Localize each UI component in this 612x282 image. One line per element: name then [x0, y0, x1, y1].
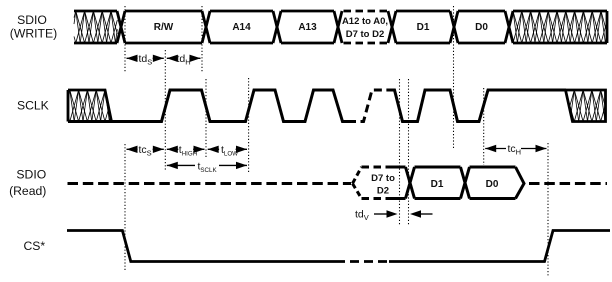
CS waveform right: [389, 231, 610, 262]
svg-text:A12 to A0,: A12 to A0,: [342, 16, 388, 27]
tsclk arrow: [167, 159, 247, 174]
svg-text:D7 to: D7 to: [371, 173, 395, 184]
tdh arrow: [167, 52, 201, 67]
tcs arrow: [127, 143, 164, 158]
dotted guide line x=125 lower: [124, 144, 126, 272]
thigh arrow: [167, 143, 205, 158]
cell A14 edges: [210, 11, 273, 43]
svg-text:D1: D1: [431, 179, 444, 190]
SDIO read: left dashed midline: [68, 182, 352, 185]
svg-text:A14: A14: [232, 22, 251, 33]
svg-text:SDIO: SDIO: [17, 13, 47, 27]
svg-text:CS*: CS*: [23, 239, 45, 253]
svg-text:A13: A13: [298, 22, 317, 33]
bus crossover at 277: [273, 11, 281, 43]
svg-text:D7 to D2: D7 to D2: [346, 29, 385, 40]
bus crossover at 121: [117, 11, 125, 43]
dotted guide line x=408.5: [408, 79, 410, 225]
cell D1 edges: [396, 11, 450, 43]
svg-text:D0: D0: [475, 22, 488, 33]
read crossover at 465: [461, 167, 470, 199]
dashed cell D7-D2 edges: [362, 167, 389, 199]
dotted guide line x=165.3: [164, 50, 166, 171]
bus crossover at 206: [202, 11, 210, 43]
dotted guide line x=206: [205, 79, 207, 172]
cell text A12 to A0, D7 to D2: [342, 16, 388, 40]
svg-text:(Read): (Read): [9, 184, 46, 198]
dotted guide line x=483.7: [483, 88, 485, 165]
dotted guide line x=453.5: [453, 6, 455, 148]
dotted guide line x=202: [201, 6, 203, 73]
tch arrow: [485, 142, 546, 157]
read bus closing: [516, 167, 525, 199]
dotted guide line x=248.6: [248, 78, 250, 172]
read bus opening: [353, 167, 362, 199]
SDIO write bus: right dont-care crosshatch: [513, 11, 607, 43]
read cell text D7 to D2: [371, 173, 395, 197]
CS dashed break: [350, 260, 390, 263]
right dashed midline: [529, 182, 607, 185]
dotted guide line x=399.5: [399, 79, 401, 225]
SCLK waveform dashed break: [348, 90, 389, 122]
dotted guide line x=125 upper: [124, 6, 126, 73]
SCLK right crosshatch: [566, 90, 606, 122]
SDIO write bus: left dont-care crosshatch: [74, 11, 117, 43]
bus crossover at 509: [505, 11, 513, 43]
svg-text:SDIO: SDIO: [16, 168, 46, 182]
cell A13 edges: [281, 11, 334, 43]
tds arrow: [127, 52, 164, 67]
read cell D1 edges: [415, 167, 461, 199]
svg-text:D2: D2: [377, 186, 389, 197]
cell D0 edges: [458, 11, 505, 43]
svg-text:D1: D1: [417, 22, 430, 33]
SCLK waveform solid part 1: [68, 90, 348, 122]
read cell solid lead-in: [387, 167, 406, 199]
SCLK left crosshatch: [68, 90, 112, 122]
bus crossover at 454: [450, 11, 458, 43]
dotted guide line x=548: [547, 143, 549, 276]
svg-text:(WRITE): (WRITE): [10, 27, 57, 41]
read crossover at 410: [406, 167, 415, 199]
read cell D0 edges: [470, 167, 516, 199]
svg-text:D0: D0: [486, 179, 499, 190]
tlow arrow: [208, 143, 247, 158]
CS waveform left: [67, 231, 345, 262]
bus crossover at 338: [334, 11, 342, 43]
tdv label and arrows: [355, 209, 433, 223]
label SDIO (Read): [9, 168, 46, 199]
cell R/W edges: [125, 11, 202, 43]
SCLK waveform solid part 2: [388, 90, 566, 122]
svg-text:R/W: R/W: [154, 22, 174, 33]
label SDIO (WRITE): [10, 13, 57, 41]
bus crossover at 392: [388, 11, 396, 43]
svg-text:SCLK: SCLK: [17, 99, 49, 113]
dashed cell A12-A0 edges: [344, 11, 389, 43]
